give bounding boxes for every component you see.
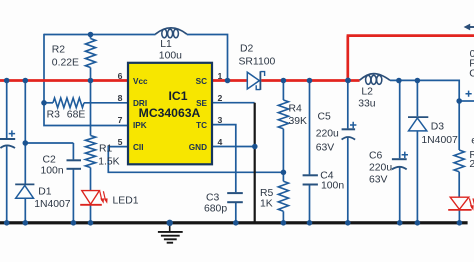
svg-text:DRI: DRI [133,99,147,108]
svg-text:MC34063A: MC34063A [139,106,201,120]
svg-text:Vcc: Vcc [133,77,148,86]
svg-text:2: 2 [218,93,223,103]
svg-text:C3: C3 [206,193,220,204]
svg-text:1.5K: 1.5K [98,157,119,168]
svg-text:100u: 100u [159,51,182,62]
svg-text:D3: D3 [431,122,445,133]
svg-text:LED1: LED1 [113,196,139,207]
svg-text:GND: GND [189,143,207,152]
svg-text:3: 3 [218,115,223,125]
svg-text:R1: R1 [99,144,113,155]
svg-text:68E: 68E [67,110,86,121]
svg-text:6: 6 [118,71,123,81]
svg-text:33u: 33u [358,99,376,110]
svg-text:220u: 220u [369,163,392,174]
svg-text:1N4007: 1N4007 [421,135,458,146]
svg-text:5: 5 [118,137,123,147]
svg-text:L2: L2 [361,87,373,98]
svg-text:0.22E: 0.22E [52,58,79,69]
svg-text:TC: TC [196,121,207,130]
svg-text:39K: 39K [289,116,308,127]
svg-text:7: 7 [118,115,123,125]
svg-text:D1: D1 [38,187,52,198]
svg-text:100n: 100n [321,181,344,192]
svg-text:1K: 1K [260,199,273,210]
svg-text:CII: CII [133,143,143,152]
svg-text:C5: C5 [318,112,332,123]
svg-text:63V: 63V [316,143,335,154]
svg-text:4: 4 [218,137,223,147]
svg-text:D2: D2 [240,44,254,55]
svg-text:100n: 100n [41,166,64,177]
svg-text:220u: 220u [316,129,339,140]
svg-text:R3: R3 [47,110,61,121]
svg-text:R2: R2 [52,45,66,56]
svg-text:IC1: IC1 [169,89,188,103]
svg-text:R4: R4 [289,104,303,115]
svg-text:R5: R5 [260,188,274,199]
svg-text:680p: 680p [204,204,227,215]
svg-text:L1: L1 [160,39,172,50]
svg-text:2: 2 [469,159,474,170]
svg-text:1: 1 [218,71,223,81]
svg-text:SR1100: SR1100 [239,57,276,68]
svg-text:1N4007: 1N4007 [34,199,71,210]
svg-text:C6: C6 [369,151,383,162]
svg-text:IPK: IPK [133,121,147,130]
svg-text:63V: 63V [369,175,388,186]
svg-text:SC: SC [196,77,207,86]
svg-text:C2: C2 [43,155,57,166]
svg-text:8: 8 [118,93,123,103]
svg-text:C: C [469,69,474,80]
svg-text:SE: SE [196,99,207,108]
